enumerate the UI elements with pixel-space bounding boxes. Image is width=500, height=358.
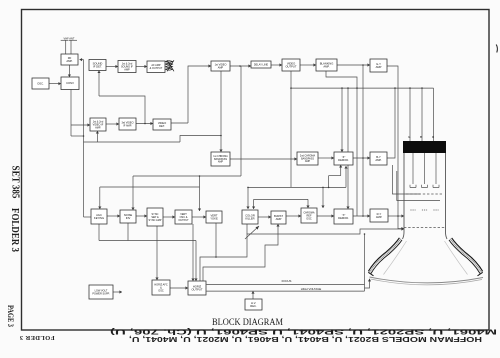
svg-text:OUTPUT: OUTPUT [178,219,189,222]
svg-text:AMP: AMP [276,217,282,221]
svg-text:DET.: DET. [159,124,165,128]
svg-text:VHF ANT: VHF ANT [64,37,75,41]
svg-text:AMP.: AMP. [323,65,329,69]
svg-text:BLOCK DIAGRAM: BLOCK DIAGRAM [212,318,283,328]
svg-text:FOLDER 3: FOLDER 3 [19,334,55,341]
svg-text:SYNC AMP: SYNC AMP [149,219,162,222]
svg-text:HIGH VOLTAGE: HIGH VOLTAGE [301,287,322,291]
svg-text:AMP.: AMP. [66,59,72,63]
svg-text:OSC: OSC [158,289,164,292]
svg-text:OSC.: OSC. [37,81,44,85]
svg-text:POWER SUPP.: POWER SUPP. [92,292,110,295]
svg-text:B: B [420,135,422,139]
svg-text:INV: INV [126,216,131,220]
svg-text:OUTPUT: OUTPUT [285,65,296,69]
svg-text:IF DET.: IF DET. [93,65,102,69]
svg-text:AMP.: AMP. [375,158,381,162]
svg-text:OUTPUT: OUTPUT [191,288,202,292]
svg-text:HOFFMAN MODELS B2021, U, B4041: HOFFMAN MODELS B2021, U, B4041, U, B4061… [129,335,482,344]
svg-text:DEMOD.: DEMOD. [338,216,349,220]
svg-text:REC.: REC. [250,304,257,308]
svg-text:AMP: AMP [218,161,224,164]
svg-text:AMP: AMP [124,68,130,71]
svg-text:AMP.: AMP. [95,126,101,129]
svg-text:DEMOD.: DEMOD. [338,158,349,162]
svg-text:PAGE 3: PAGE 3 [6,305,15,327]
svg-text:FOCUS: FOCUS [282,279,292,283]
svg-text:KEYING: KEYING [94,216,104,220]
svg-text:AMP: AMP [218,66,224,69]
svg-text:KILLER: KILLER [245,217,254,221]
svg-text:SET 385: SET 385 [10,166,21,199]
svg-text:AMP: AMP [376,65,382,69]
svg-text:CONV: CONV [66,81,74,85]
svg-text:AMP: AMP [305,160,311,163]
svg-text:FOLDER 3: FOLDER 3 [9,208,20,252]
svg-text:IF AMP.: IF AMP. [123,124,132,127]
svg-text:& OUTPUT: & OUTPUT [150,67,163,70]
svg-text:AMP.: AMP. [376,215,382,219]
svg-text:OSC: OSC [306,217,312,220]
svg-text:DELAY LINE: DELAY LINE [254,63,269,66]
svg-text:YOKE: YOKE [210,217,218,221]
